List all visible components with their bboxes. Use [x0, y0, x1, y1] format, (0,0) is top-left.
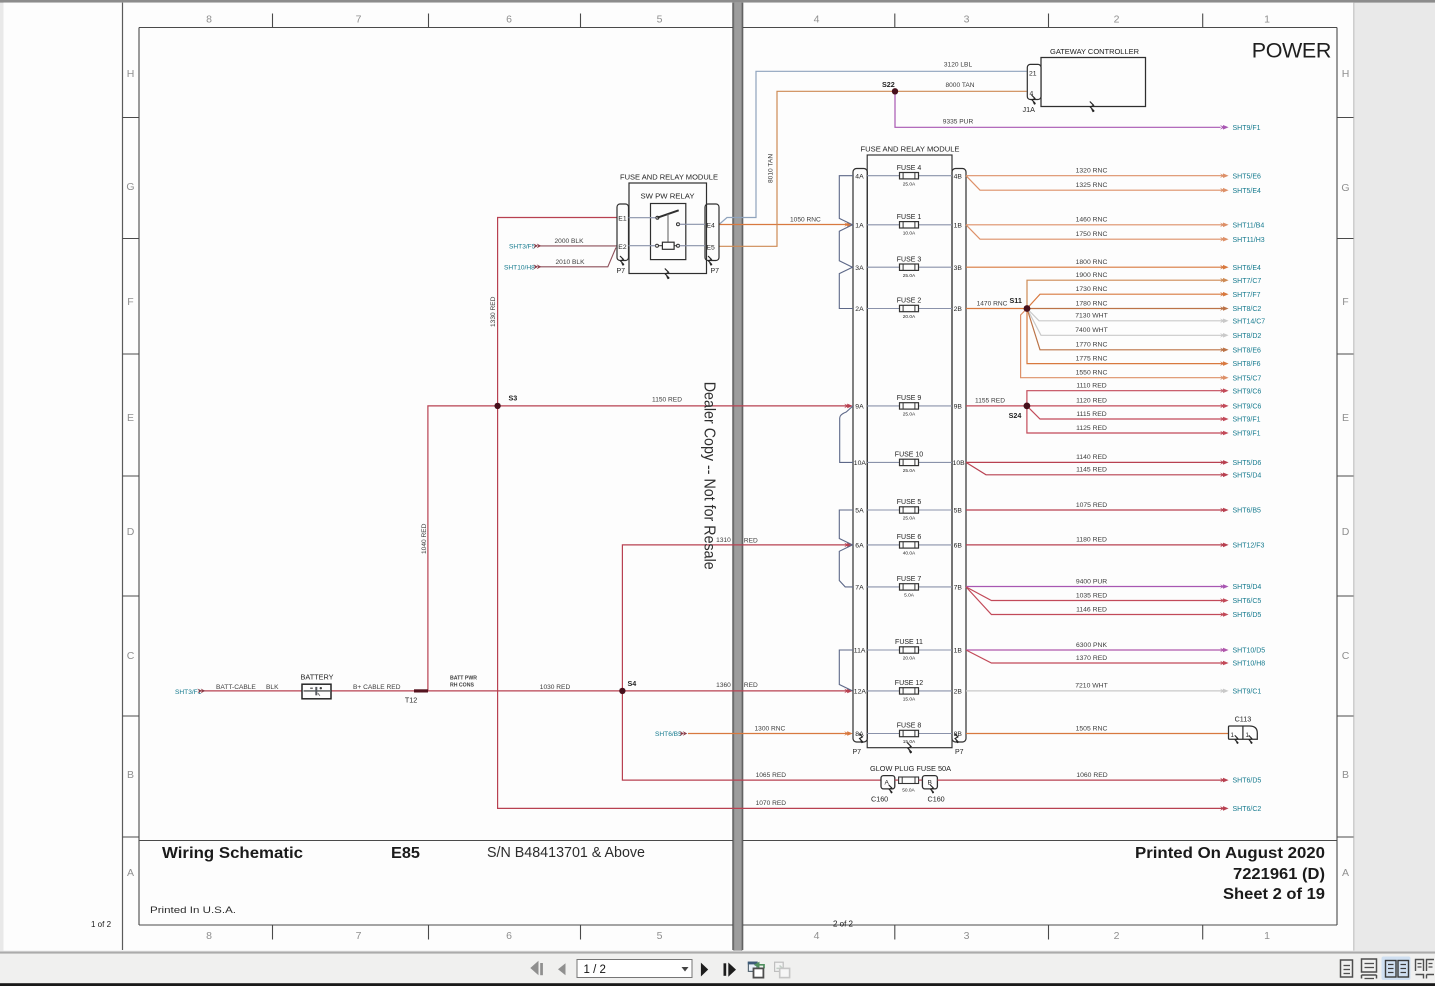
- svg-text:3: 3: [964, 930, 970, 942]
- fuse FUSE 9 (25.0A): [897, 395, 922, 417]
- svg-text:E2: E2: [618, 244, 627, 251]
- svg-text:SHT6/C5: SHT6/C5: [1233, 598, 1262, 605]
- svg-text:SHT9/F1: SHT9/F1: [1233, 125, 1261, 132]
- svg-text:Wiring Schematic: Wiring Schematic: [162, 845, 303, 862]
- svg-text:A: A: [127, 867, 134, 879]
- svg-text:1110 RED: 1110 RED: [1076, 383, 1106, 390]
- svg-text:1900 RNC: 1900 RNC: [1076, 272, 1108, 279]
- svg-text:1505 RNC: 1505 RNC: [1076, 725, 1108, 732]
- wire 8010 TAN / 8000 TAN (E5 to gateway pin 4): [719, 91, 1027, 246]
- svg-text:SHT6/D5: SHT6/D5: [1233, 778, 1262, 785]
- bus 9A-10A: [840, 406, 853, 463]
- svg-text:SHT10/H8: SHT10/H8: [504, 265, 535, 272]
- svg-text:1325 RNC: 1325 RNC: [1076, 182, 1108, 189]
- svg-text:1300 RNC: 1300 RNC: [755, 725, 786, 732]
- svg-text:5: 5: [657, 930, 663, 942]
- svg-text:P7: P7: [955, 749, 964, 756]
- svg-text:3120 LBL: 3120 LBL: [944, 62, 973, 69]
- svg-text:SHT6/B5: SHT6/B5: [1233, 508, 1262, 515]
- svg-text:FUSE 1: FUSE 1: [897, 214, 922, 221]
- wire 3120 LBL (E4 to gateway pin 21): [719, 71, 1027, 224]
- node S3: [494, 403, 500, 409]
- svg-text:SHT5/E6: SHT5/E6: [1233, 173, 1262, 180]
- svg-text:1750 RNC: 1750 RNC: [1076, 231, 1108, 238]
- svg-text:E: E: [127, 412, 134, 424]
- wire 1900 RNC: [1027, 280, 1222, 308]
- wire 1120 RED: [1027, 405, 1222, 407]
- svg-text:Sheet 2 of 19: Sheet 2 of 19: [1223, 886, 1325, 903]
- svg-text:FUSE AND RELAY MODULE: FUSE AND RELAY MODULE: [620, 173, 718, 182]
- op relay SW PW RELAY internals: [651, 204, 686, 260]
- svg-text:6B: 6B: [954, 543, 963, 550]
- svg-text:1140 RED: 1140 RED: [1076, 454, 1107, 461]
- svg-text:25.0A: 25.0A: [903, 412, 916, 418]
- svg-text:6300 PNK: 6300 PNK: [1076, 642, 1107, 649]
- svg-text:SHT11/H3: SHT11/H3: [1233, 237, 1265, 244]
- svg-text:SHT10/H8: SHT10/H8: [1233, 661, 1266, 668]
- btn snapshot: [748, 962, 757, 971]
- svg-text:Printed On August 2020: Printed On August 2020: [1135, 845, 1325, 862]
- svg-text:11A: 11A: [854, 648, 866, 655]
- svg-text:12A: 12A: [854, 689, 867, 696]
- icon continuous view: [1362, 959, 1377, 972]
- svg-text:SHT6/D5: SHT6/D5: [1233, 612, 1262, 619]
- svg-text:Printed In U.S.A.: Printed In U.S.A.: [150, 905, 236, 916]
- svg-text:SHT6/E4: SHT6/E4: [1233, 265, 1262, 272]
- fuse row FUSE 9 pins 9A/9B: [855, 404, 962, 411]
- svg-text:SHT7/C7: SHT7/C7: [1233, 278, 1262, 285]
- left page: [4, 3, 734, 951]
- svg-text:1120 RED: 1120 RED: [1076, 398, 1107, 405]
- svg-text:RED: RED: [744, 682, 758, 689]
- svg-text:2A: 2A: [855, 306, 864, 313]
- wire 1550 RNC: [1021, 309, 1222, 378]
- svg-text:SHT9/F1: SHT9/F1: [1233, 431, 1261, 438]
- svg-text:SHT8/E6: SHT8/E6: [1233, 347, 1262, 354]
- svg-text:1B: 1B: [954, 222, 963, 229]
- svg-text:G: G: [126, 181, 134, 193]
- btn first page: [530, 961, 538, 975]
- fuse row FUSE 8 pins 8A/8B: [855, 731, 962, 738]
- svg-text:SHT3/F1: SHT3/F1: [175, 689, 202, 696]
- wire 9335 PUR (S22 to SHT9/F1): [895, 91, 1221, 127]
- svg-text:3A: 3A: [855, 265, 864, 272]
- fuse row FUSE 10 pins 10A/10B: [854, 460, 965, 467]
- fuse row FUSE 1 pins 1A/1B: [855, 222, 962, 229]
- wire 1330 RED (E1 to S3): [498, 218, 617, 406]
- svg-text:BATT-CABLE: BATT-CABLE: [216, 684, 256, 691]
- svg-text:POWER: POWER: [1252, 39, 1331, 63]
- svg-text:SW PW RELAY: SW PW RELAY: [641, 192, 695, 201]
- fuse FUSE 4 (25.0A): [897, 165, 922, 187]
- connector E1/E2 (relay left, P7): [617, 204, 651, 275]
- svg-text:GLOW PLUG FUSE 50A: GLOW PLUG FUSE 50A: [870, 764, 951, 773]
- svg-text:8: 8: [206, 930, 212, 942]
- wire 1800 RNC: [966, 266, 1222, 268]
- wire 1770 RNC: [1027, 309, 1222, 350]
- wire 1370 RED: [966, 650, 1222, 663]
- svg-text:25.0A: 25.0A: [903, 468, 916, 474]
- svg-text:1125 RED: 1125 RED: [1076, 425, 1107, 432]
- svg-text:SHT8/C2: SHT8/C2: [1233, 306, 1262, 313]
- connector C160 A: [871, 776, 895, 804]
- svg-text:SHT7/F7: SHT7/F7: [1233, 292, 1261, 299]
- fuse FUSE 11 (20.0A): [895, 639, 923, 661]
- svg-text:BLK: BLK: [266, 684, 279, 691]
- svg-text:SHT10/D5: SHT10/D5: [1233, 648, 1266, 655]
- fuse row FUSE 12 pins 12A/2B: [854, 689, 963, 696]
- svg-text:SHT3/F5: SHT3/F5: [509, 244, 536, 251]
- fuse row FUSE 5 pins 5A/5B: [855, 508, 962, 515]
- btn next page: [701, 963, 708, 977]
- svg-text:C160: C160: [871, 795, 888, 804]
- svg-text:1060 RED: 1060 RED: [1076, 772, 1107, 779]
- svg-text:SHT9/F1: SHT9/F1: [1233, 417, 1261, 424]
- connector J1A (pins 21, 4): [1023, 64, 1042, 114]
- fuse FUSE 7 (5.0A): [897, 576, 922, 598]
- wire 6300 PNK: [966, 649, 1222, 651]
- svg-text:SHT9/C1: SHT9/C1: [1233, 689, 1262, 696]
- fuse FUSE 5 (25.0A): [897, 499, 922, 521]
- svg-text:7210 WHT: 7210 WHT: [1075, 683, 1107, 690]
- connector bracket A-side (P7): [853, 169, 868, 757]
- svg-text:SHT8/F6: SHT8/F6: [1233, 361, 1261, 368]
- svg-text:2: 2: [1114, 14, 1120, 26]
- svg-text:E5: E5: [707, 245, 716, 252]
- svg-text:J1A: J1A: [1023, 105, 1036, 114]
- connector E4/E5 (relay right, P7): [686, 204, 719, 275]
- svg-text:E4: E4: [707, 223, 716, 230]
- wire 1470 RNC (2B to S11): [966, 308, 1027, 310]
- pdf viewer toolbar: [0, 952, 1435, 954]
- svg-text:1065 RED: 1065 RED: [756, 772, 787, 779]
- wire 1115 RED: [1027, 406, 1222, 419]
- wire 1310 RED (6A feed, down through S4, 1065 RED to glow plug): [622, 545, 880, 780]
- wire 1320 RNC: [966, 175, 1222, 177]
- svg-text:C: C: [1342, 650, 1350, 662]
- node S11: [1024, 305, 1031, 312]
- svg-text:7B: 7B: [954, 585, 963, 592]
- svg-text:E85: E85: [391, 845, 420, 862]
- svg-text:D: D: [127, 526, 135, 538]
- svg-text:BATTERY: BATTERY: [301, 673, 334, 682]
- svg-text:8A: 8A: [855, 731, 864, 738]
- svg-text:FUSE 6: FUSE 6: [897, 534, 922, 541]
- svg-text:1155 RED: 1155 RED: [975, 398, 1005, 405]
- svg-text:SHT5/C7: SHT5/C7: [1233, 375, 1262, 382]
- wire 1070 RED (S3 down to bottom run): [498, 406, 1222, 809]
- svg-text:E1: E1: [618, 216, 627, 223]
- svg-text:SHT5/D4: SHT5/D4: [1233, 472, 1262, 479]
- svg-text:H: H: [127, 68, 135, 80]
- svg-text:2010 BLK: 2010 BLK: [556, 259, 586, 266]
- wire 1150 RED (S3 to 9A): [498, 405, 851, 407]
- svg-text:7221961 (D): 7221961 (D): [1233, 866, 1325, 883]
- wire 9400 PUR: [966, 586, 1222, 588]
- svg-text:FUSE AND RELAY MODULE: FUSE AND RELAY MODULE: [861, 145, 960, 154]
- wire 1040 RED (S3 branch to T12): [428, 406, 498, 691]
- svg-text:GATEWAY CONTROLLER: GATEWAY CONTROLLER: [1050, 47, 1139, 56]
- svg-text:1320 RNC: 1320 RNC: [1076, 168, 1108, 175]
- svg-text:SHT9/C6: SHT9/C6: [1233, 404, 1262, 411]
- svg-text:7: 7: [356, 14, 362, 26]
- svg-text:2B: 2B: [954, 689, 963, 696]
- svg-text:9400 PUR: 9400 PUR: [1076, 578, 1107, 585]
- gateway controller U-GW: [1041, 47, 1146, 107]
- svg-text:3: 3: [964, 14, 970, 26]
- svg-text:1370 RED: 1370 RED: [1076, 655, 1107, 662]
- svg-text:P7: P7: [617, 268, 626, 275]
- svg-text:SHT14/C7: SHT14/C7: [1233, 318, 1266, 325]
- svg-text:S3: S3: [509, 394, 518, 403]
- wire 1460 RNC: [966, 224, 1222, 226]
- svg-text:1050 RNC: 1050 RNC: [790, 217, 821, 224]
- svg-text:25.0A: 25.0A: [903, 273, 916, 279]
- svg-text:1030 RED: 1030 RED: [540, 684, 571, 691]
- fuse FUSE 3 (25.0A): [897, 256, 922, 278]
- fuse row FUSE 2 pins 2A/2B: [855, 306, 962, 313]
- svg-text:RH CONS: RH CONS: [450, 683, 474, 689]
- svg-text:3B: 3B: [954, 265, 963, 272]
- fuse FUSE 10 (25.0A): [895, 452, 924, 474]
- svg-text:6: 6: [506, 930, 512, 942]
- svg-text:SHT9/C6: SHT9/C6: [1233, 388, 1262, 395]
- svg-text:20.0A: 20.0A: [903, 656, 916, 662]
- svg-text:5.0A: 5.0A: [904, 593, 915, 599]
- svg-text:1470 RNC: 1470 RNC: [977, 301, 1008, 308]
- svg-text:1 of 2: 1 of 2: [91, 920, 112, 929]
- bus 4A-1A-3A-2A: [839, 176, 853, 309]
- connector C113: [1229, 715, 1258, 745]
- node S24: [1024, 403, 1031, 410]
- svg-text:4: 4: [814, 14, 820, 26]
- wire 1110 RED: [1027, 391, 1222, 406]
- fuse row FUSE 3 pins 3A/3B: [855, 265, 962, 272]
- svg-text:1: 1: [1264, 930, 1270, 942]
- wire 7210 WHT: [966, 690, 1222, 692]
- btn clipboard (disabled): [775, 962, 784, 971]
- svg-text:F: F: [1342, 296, 1348, 308]
- svg-text:S24: S24: [1009, 411, 1022, 420]
- svg-text:H: H: [1342, 68, 1350, 80]
- fuse row FUSE 11 pins 11A/1B: [854, 648, 963, 655]
- svg-text:SHT6/B5: SHT6/B5: [655, 731, 682, 738]
- fuse FUSE 2 (20.0A): [897, 298, 922, 320]
- fuse FUSE 8 (15.0A): [897, 723, 922, 745]
- svg-text:2B: 2B: [954, 306, 963, 313]
- svg-text:FUSE 4: FUSE 4: [897, 165, 922, 172]
- svg-text:T12: T12: [405, 695, 417, 704]
- svg-text:1180 RED: 1180 RED: [1076, 537, 1107, 544]
- svg-text:SHT12/F3: SHT12/F3: [1233, 543, 1265, 550]
- svg-text:9335 PUR: 9335 PUR: [943, 119, 974, 126]
- fuse and relay module (left page): [620, 173, 718, 274]
- svg-text:25.0A: 25.0A: [903, 516, 916, 522]
- svg-text:FUSE 10: FUSE 10: [895, 452, 924, 459]
- svg-text:C: C: [127, 650, 135, 662]
- wire 1325 RNC: [966, 176, 1222, 191]
- svg-text:1B: 1B: [954, 648, 963, 655]
- wire 1300 RNC (SHT6/B5 to 8A): [688, 733, 851, 735]
- svg-text:5A: 5A: [855, 508, 864, 515]
- right page: [742, 3, 1354, 951]
- wire 1730 RNC: [1027, 294, 1222, 308]
- svg-text:P7: P7: [711, 268, 720, 275]
- wire battery B+ cable / 1030 RED / 1360 RED: [199, 690, 851, 692]
- svg-text:1115 RED: 1115 RED: [1076, 411, 1106, 418]
- svg-text:S22: S22: [882, 80, 895, 89]
- wire 1060 RED (glow plug to SHT6/D5): [937, 779, 1222, 781]
- svg-text:7A: 7A: [855, 585, 864, 592]
- svg-text:4: 4: [814, 930, 820, 942]
- svg-text:50.0A: 50.0A: [902, 788, 915, 794]
- svg-text:5B: 5B: [954, 508, 963, 515]
- gateway case zigzag: [1090, 102, 1094, 112]
- svg-text:1070 RED: 1070 RED: [756, 800, 787, 807]
- fuse FUSE 1 (10.0A): [897, 214, 922, 236]
- svg-text:1775 RNC: 1775 RNC: [1076, 355, 1108, 362]
- svg-text:8010 TAN: 8010 TAN: [768, 154, 775, 183]
- svg-text:4B: 4B: [954, 173, 963, 180]
- svg-text:10A: 10A: [854, 460, 867, 467]
- icon two-page continuous view: [1416, 960, 1435, 979]
- fuse row FUSE 4 pins 4A/4B: [855, 173, 962, 180]
- bus 11A-12A: [839, 650, 853, 691]
- battery BATTERY: [301, 673, 334, 699]
- fuse row FUSE 7 pins 7A/7B: [855, 585, 962, 592]
- wire 7400 WHT: [1027, 309, 1222, 336]
- svg-text:1145 RED: 1145 RED: [1076, 467, 1107, 474]
- wire 1180 RED: [966, 544, 1222, 546]
- svg-text:B+ CABLE RED: B+ CABLE RED: [353, 684, 401, 691]
- svg-text:S11: S11: [1010, 296, 1022, 305]
- svg-text:1: 1: [1264, 14, 1270, 26]
- svg-text:7130 WHT: 7130 WHT: [1075, 313, 1107, 320]
- svg-text:SHT11/B4: SHT11/B4: [1233, 222, 1265, 229]
- wire 2010 BLK (SHT10/H8 to E2): [540, 248, 616, 267]
- svg-text:1035 RED: 1035 RED: [1076, 592, 1107, 599]
- svg-text:S/N B48413701 & Above: S/N B48413701 & Above: [487, 845, 645, 861]
- icon single page view: [1341, 960, 1353, 977]
- svg-text:FUSE 2: FUSE 2: [897, 298, 922, 305]
- wire 1750 RNC: [966, 225, 1222, 239]
- btn last page: [724, 963, 727, 976]
- svg-text:B: B: [127, 769, 134, 781]
- svg-text:2: 2: [1114, 930, 1120, 942]
- wire 1505 RNC (8B to C113): [966, 733, 1229, 735]
- svg-text:Dealer Copy -- Not for Resale: Dealer Copy -- Not for Resale: [701, 382, 718, 570]
- svg-text:6A: 6A: [855, 543, 864, 550]
- svg-text:40.0A: 40.0A: [903, 551, 916, 557]
- svg-text:FUSE 12: FUSE 12: [895, 680, 924, 687]
- svg-text:FUSE 11: FUSE 11: [895, 639, 923, 646]
- svg-text:8B: 8B: [954, 731, 963, 738]
- svg-text:FUSE 7: FUSE 7: [897, 576, 922, 583]
- svg-text:SHT8/D2: SHT8/D2: [1233, 333, 1262, 340]
- svg-text:2 of 2: 2 of 2: [833, 920, 854, 929]
- svg-text:8000 TAN: 8000 TAN: [945, 82, 974, 89]
- svg-text:1040 RED: 1040 RED: [421, 523, 428, 554]
- node S4: [619, 688, 625, 694]
- svg-text:1: 1: [1231, 732, 1235, 739]
- svg-text:9B: 9B: [954, 404, 963, 411]
- wire 1050 RNC (E4 to 1A): [719, 224, 851, 226]
- svg-text:1330 RED: 1330 RED: [490, 296, 497, 327]
- svg-text:1460 RNC: 1460 RNC: [1076, 217, 1108, 224]
- svg-text:G: G: [1341, 182, 1349, 194]
- fuse row FUSE 6 pins 6A/6B: [855, 543, 962, 550]
- fuse module case zigzag: [907, 743, 911, 753]
- fuse and relay module (right page): [861, 145, 960, 748]
- svg-text:BATT PWR: BATT PWR: [450, 676, 477, 682]
- wire 1145 RED: [966, 462, 1222, 474]
- svg-text:7400 WHT: 7400 WHT: [1075, 327, 1107, 334]
- svg-text:FUSE 8: FUSE 8: [897, 723, 922, 730]
- svg-text:8: 8: [206, 14, 212, 26]
- glow plug fuse 50A: [870, 764, 951, 773]
- svg-text:1800 RNC: 1800 RNC: [1076, 259, 1108, 266]
- svg-text:FUSE 9: FUSE 9: [897, 395, 922, 402]
- icon two-page view (selected): [1382, 957, 1411, 981]
- svg-text:C160: C160: [928, 795, 945, 804]
- svg-text:A: A: [1342, 867, 1349, 879]
- svg-text:P7: P7: [853, 749, 862, 756]
- svg-text:1550 RNC: 1550 RNC: [1076, 370, 1108, 377]
- svg-text:21: 21: [1029, 71, 1037, 78]
- connector C160 B: [919, 776, 945, 804]
- svg-text:6: 6: [506, 14, 512, 26]
- wire 1125 RED: [1027, 406, 1222, 433]
- btn prev page: [558, 963, 566, 975]
- svg-text:1A: 1A: [855, 222, 864, 229]
- fuse FUSE 6 (40.0A): [897, 534, 922, 556]
- bus 5A-6A-7A: [839, 510, 853, 587]
- svg-text:SHT9/D4: SHT9/D4: [1233, 584, 1262, 591]
- wire 1775 RNC: [1027, 309, 1222, 364]
- wire 2000 BLK (SHT3/F5 to E2): [540, 245, 617, 247]
- splice T12: [414, 689, 428, 692]
- page divider bar: [734, 3, 742, 951]
- svg-text:1150 RED: 1150 RED: [652, 397, 682, 404]
- wire 1075 RED: [966, 509, 1222, 511]
- svg-text:1146 RED: 1146 RED: [1076, 606, 1107, 613]
- svg-text:D: D: [1342, 526, 1350, 538]
- wire 1146 RED: [966, 587, 1222, 615]
- svg-text:1075 RED: 1075 RED: [1076, 502, 1107, 509]
- wire 7130 WHT: [1027, 309, 1222, 321]
- svg-text:S4: S4: [628, 679, 637, 688]
- svg-text:15.0A: 15.0A: [903, 739, 916, 745]
- svg-text:E: E: [1342, 412, 1349, 424]
- svg-text:1 / 2: 1 / 2: [584, 964, 606, 976]
- svg-text:SHT5/D6: SHT5/D6: [1233, 460, 1262, 467]
- node S22: [892, 88, 898, 94]
- svg-text:1730 RNC: 1730 RNC: [1076, 286, 1108, 293]
- page number box: [577, 960, 692, 978]
- svg-text:9A: 9A: [855, 404, 864, 411]
- fuse FUSE 12 (15.0A): [895, 680, 924, 702]
- svg-text:RED: RED: [744, 538, 758, 545]
- svg-text:F: F: [127, 296, 133, 308]
- svg-text:FUSE 3: FUSE 3: [897, 256, 922, 263]
- svg-text:1770 RNC: 1770 RNC: [1076, 342, 1108, 349]
- svg-text:1780 RNC: 1780 RNC: [1076, 300, 1108, 307]
- svg-text:2000 BLK: 2000 BLK: [555, 238, 585, 245]
- svg-text:4A: 4A: [855, 173, 864, 180]
- svg-text:B: B: [1342, 769, 1349, 781]
- svg-text:FUSE 5: FUSE 5: [897, 499, 922, 506]
- svg-text:SHT5/E4: SHT5/E4: [1233, 188, 1262, 195]
